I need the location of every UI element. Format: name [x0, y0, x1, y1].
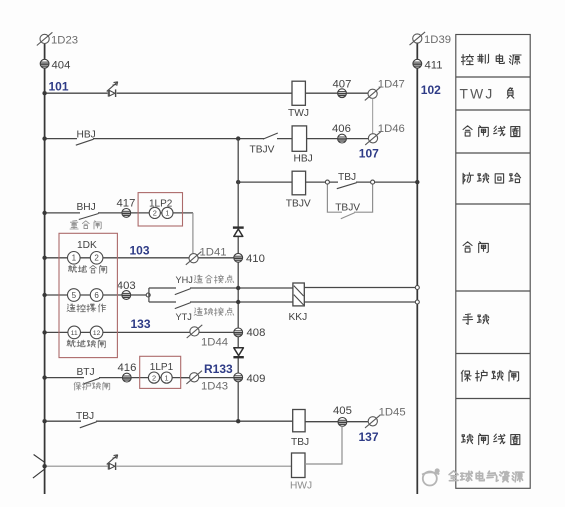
svg-text:TBJV: TBJV — [250, 144, 275, 155]
terminal 407 — [338, 89, 347, 98]
svg-text:1: 1 — [165, 209, 169, 218]
wire bottom line — [45, 465, 292, 467]
node TBJV right bus junction — [415, 180, 419, 184]
svg-text:407: 407 — [333, 78, 352, 90]
wire 101 line — [45, 92, 292, 94]
relay coil TWJ — [292, 81, 305, 105]
svg-text:1D39: 1D39 — [424, 34, 451, 46]
svg-text:133: 133 — [131, 317, 151, 331]
svg-text:409: 409 — [247, 373, 266, 385]
contact YTJ — [175, 300, 191, 308]
wire 1LP2 down to 1D41 — [192, 213, 194, 254]
contact TBJ — [80, 420, 97, 428]
svg-text:TBJ: TBJ — [291, 437, 309, 448]
wire TBJV to right bus — [306, 181, 418, 183]
table row tiaozha xianquan — [462, 434, 473, 443]
wire 1LP1 to 409 — [181, 377, 238, 379]
svg-text:103: 103 — [130, 243, 150, 257]
node BTJ bus junction — [42, 375, 46, 379]
svg-text:417: 417 — [117, 198, 136, 210]
svg-text:BTJ: BTJ — [77, 367, 95, 378]
contact BHJ — [79, 211, 99, 219]
relay coil TBJ — [293, 410, 305, 432]
wire TWJ to 1D47 — [305, 92, 368, 94]
terminal 410 — [234, 253, 243, 262]
label yaotiao jiedian — [194, 308, 202, 316]
node branch right — [371, 180, 375, 184]
node 103 bus junction — [42, 256, 46, 260]
wire YTJ branch — [149, 301, 293, 303]
label chonghezha — [70, 221, 78, 229]
svg-text:405: 405 — [333, 405, 352, 417]
relay coil TBJV — [292, 171, 306, 195]
node HBJ/vertical junction — [236, 136, 240, 140]
svg-text:406: 406 — [332, 123, 351, 135]
svg-text:TBJV: TBJV — [335, 203, 360, 214]
wire KKJ upper to bus — [304, 287, 417, 289]
svg-text:403: 403 — [117, 280, 136, 292]
svg-text:410: 410 — [246, 253, 265, 265]
wire BHJ line — [45, 212, 193, 214]
wire right bus 102 — [416, 43, 418, 494]
terminal 408 — [234, 328, 243, 337]
relay coil KKJ — [293, 283, 304, 306]
svg-text:2: 2 — [153, 209, 157, 218]
svg-text:TWJ: TWJ — [288, 108, 309, 119]
pressure plate 1LP1 pin 2 — [148, 372, 159, 383]
node TBJV/vertical junction — [236, 180, 240, 184]
table frame function list — [456, 35, 530, 489]
terminal 416 — [122, 373, 131, 382]
terminal 1D41 — [186, 252, 202, 265]
terminal 1D44 — [187, 325, 203, 338]
svg-text:1LP1: 1LP1 — [150, 362, 174, 373]
terminal 409 — [234, 373, 243, 382]
wire TBJV coil line — [238, 181, 292, 183]
pressure plate 1LP2 box — [138, 193, 182, 226]
terminal 403 — [122, 291, 131, 300]
svg-text:1: 1 — [72, 254, 77, 263]
wire TBJ line — [45, 420, 293, 422]
node 133 bus junction — [42, 330, 46, 334]
node HBJ bus junction — [42, 136, 46, 140]
node YHJ/vertical junction — [236, 286, 240, 290]
terminal 1D23 — [37, 32, 53, 45]
pressure plate 1LP1 pin 1 — [161, 372, 172, 383]
svg-text:1D43: 1D43 — [201, 381, 228, 393]
label yaohe jiedian — [194, 275, 202, 283]
svg-text:1D44: 1D44 — [201, 336, 228, 348]
terminal 1D43 — [186, 371, 202, 384]
terminal 411 — [413, 59, 422, 68]
contact HBJ — [76, 137, 94, 145]
switch 1DK pin 1 — [68, 251, 81, 264]
wire 1D47 to 1D46 link — [372, 99, 374, 134]
svg-text:TBJV: TBJV — [286, 199, 311, 210]
terminal 406 — [338, 134, 347, 143]
wire HBJ line — [45, 138, 293, 140]
svg-text:1D45: 1D45 — [379, 407, 406, 419]
label yaokong caozuo — [67, 304, 75, 312]
node BHJ bus junction — [42, 211, 46, 215]
svg-text:11: 11 — [71, 330, 78, 337]
switch 1DK pin 2 — [90, 251, 103, 264]
wire YHJ branch — [149, 287, 293, 289]
svg-text:HBJ: HBJ — [294, 153, 313, 164]
svg-text:102: 102 — [421, 83, 441, 97]
svg-text:1D47: 1D47 — [378, 78, 405, 90]
pressure plate 1LP2 pin 1 — [162, 207, 173, 218]
table row hezha — [463, 242, 472, 252]
wire BTJ line — [45, 377, 190, 379]
svg-text:411: 411 — [425, 59, 443, 71]
svg-text:1D46: 1D46 — [378, 123, 405, 135]
svg-text:404: 404 — [52, 59, 71, 71]
svg-text:YTJ: YTJ — [176, 312, 192, 322]
pressure plate 1LP1 box — [140, 356, 181, 388]
svg-text:2: 2 — [94, 254, 99, 263]
table row baohu tiaozha — [461, 370, 471, 381]
node bottom bus junction — [42, 464, 46, 468]
wire split vertical — [148, 288, 150, 302]
svg-text:KKJ: KKJ — [289, 312, 308, 323]
svg-text:2: 2 — [152, 373, 156, 382]
node TBJ/vertical junction — [236, 419, 240, 423]
wire TBJ to 1D45 — [305, 421, 368, 423]
svg-text:5: 5 — [72, 291, 77, 300]
watermark text — [449, 471, 458, 481]
pressure plate 1LP2 pin 2 — [149, 207, 160, 218]
svg-text:6: 6 — [94, 291, 99, 300]
svg-text:HWJ: HWJ — [290, 481, 312, 492]
switch 1DK pin 11 — [68, 326, 81, 339]
terminal 1D46 — [365, 132, 381, 145]
connector plug XB bottom — [107, 455, 118, 470]
terminal 404 — [40, 59, 49, 68]
wire KKJ lower to bus — [304, 301, 417, 303]
terminal 1D39 — [410, 32, 426, 45]
diode V1 — [232, 227, 245, 237]
node KKJ lower bus junction — [415, 300, 419, 304]
wire HBJ to 1D46 — [307, 138, 369, 140]
contact TBJV on HBJ line — [263, 133, 278, 140]
wire TBJV parallel branch — [327, 182, 372, 212]
switch 1DK box — [59, 233, 117, 357]
contact TBJV antipump — [341, 211, 355, 219]
table row kongzhi dianyuan — [462, 55, 474, 65]
wire 103 line — [45, 257, 239, 259]
contact YHJ — [175, 286, 191, 294]
svg-text:TWJ: TWJ — [460, 87, 495, 102]
table row shoutiao — [463, 314, 473, 324]
node branch left — [325, 180, 329, 184]
wire 133 line — [45, 331, 239, 333]
wire left bus 101 — [44, 44, 46, 495]
node 101 bus junction — [42, 91, 46, 95]
wire HWJ to 405 junction — [305, 426, 342, 464]
terminal 1D45 — [365, 415, 381, 428]
contact BTJ — [83, 376, 100, 384]
watermark logo — [422, 468, 440, 485]
svg-text:12: 12 — [93, 330, 101, 337]
switch 1DK pin 12 — [90, 326, 103, 339]
svg-text:TBJ: TBJ — [76, 411, 94, 422]
node KKJ upper bus junction — [415, 286, 419, 290]
switch 1DK pin 6 — [90, 289, 103, 302]
svg-text:HBJ: HBJ — [77, 129, 96, 140]
connector plug XB top — [107, 82, 118, 97]
table row fangtiao huilu — [463, 173, 473, 184]
wire central vertical — [237, 139, 239, 422]
svg-text:1D23: 1D23 — [51, 34, 78, 46]
diode V2 — [232, 347, 245, 358]
svg-text:R133: R133 — [204, 362, 233, 376]
svg-text:137: 137 — [359, 430, 379, 444]
label jiudi hezha — [68, 265, 76, 272]
svg-text:107: 107 — [359, 146, 379, 160]
wire break chevron — [33, 455, 45, 479]
node YTJ/vertical junction — [236, 300, 240, 304]
wire 403 line — [45, 294, 149, 296]
table row hezha xianquan — [463, 126, 472, 136]
svg-text:1: 1 — [165, 373, 169, 382]
svg-text:1DK: 1DK — [77, 240, 97, 251]
svg-text:1D41: 1D41 — [200, 246, 227, 258]
svg-text:TBJ: TBJ — [338, 172, 356, 183]
switch 1DK pin 5 — [68, 289, 81, 302]
relay coil HBJ — [292, 126, 307, 151]
label baohu tiaozha left — [74, 382, 81, 390]
node 403 split — [146, 293, 150, 297]
svg-text:408: 408 — [247, 327, 266, 339]
svg-text:BHJ: BHJ — [77, 202, 96, 213]
terminal 1D47 — [365, 87, 381, 100]
relay coil HWJ — [292, 453, 306, 478]
terminal 417 — [122, 209, 131, 218]
node TBJ bus junction — [42, 419, 46, 423]
svg-text:YHJ: YHJ — [176, 275, 193, 285]
node 403 bus junction — [42, 293, 46, 297]
svg-text:101: 101 — [49, 80, 69, 94]
contact TBJ antipump — [337, 181, 357, 189]
svg-text:416: 416 — [118, 362, 137, 374]
label jiudi tiaozha — [67, 340, 75, 347]
terminal 405 — [338, 418, 347, 427]
